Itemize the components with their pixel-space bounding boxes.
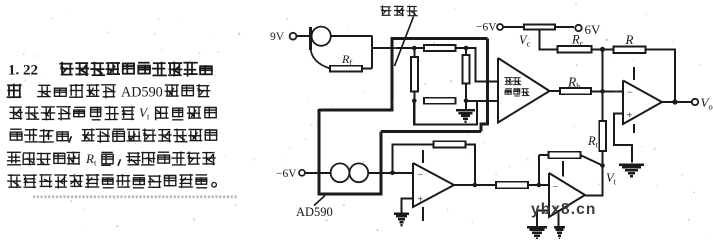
wire node Q1 output <box>371 35 373 68</box>
terminal -6V (bottom) <box>276 168 331 180</box>
op-amp U4 <box>623 67 662 133</box>
svg-text:−: − <box>418 170 424 181</box>
text line1 "1.22 传感器温度补偿原理电" <box>8 63 212 79</box>
scan artifact faint band <box>33 195 237 198</box>
wire Rc to summing <box>602 49 604 91</box>
terminal 6V <box>575 22 601 37</box>
wire bus C <box>318 109 321 194</box>
text line3 "感器经过放大后的Vt作为温度" <box>10 105 216 122</box>
label Rb <box>567 75 581 92</box>
svg-text:9V: 9V <box>270 31 285 43</box>
ground U3 pin <box>554 227 565 239</box>
wire Rt to Vt <box>602 151 604 166</box>
resistor R6 (coupling) <box>496 182 549 188</box>
svg-text:6V: 6V <box>585 22 602 37</box>
svg-text:−: − <box>553 182 559 193</box>
wire bus F <box>381 130 481 133</box>
transistor Q1 (current source) <box>311 27 331 69</box>
resistor Rb <box>560 88 603 94</box>
label Rf <box>341 52 352 68</box>
wire bridge feed <box>372 47 424 49</box>
label Rc <box>571 33 584 49</box>
wire bridge BR to U1 - <box>466 100 498 102</box>
resistor R <box>614 46 676 102</box>
wire AD590 output <box>368 172 413 174</box>
text line4 "补偿信号，通过压力传感器温度" <box>10 129 216 142</box>
wire U2 + to ground <box>402 199 414 213</box>
svg-text:AD590: AD590 <box>296 205 333 219</box>
node U2 output <box>473 183 478 188</box>
node J2 (Rc/R junction) <box>600 47 605 52</box>
svg-text:−6V: −6V <box>276 168 297 180</box>
watermark ybx8.cn <box>531 201 596 218</box>
resistor bridge R2 (left) <box>411 48 418 101</box>
op-amp U1 instrumentation amplifier 仪器放大器 <box>498 58 550 123</box>
node Vt <box>600 163 605 168</box>
terminal -6V (top) <box>476 22 524 34</box>
svg-text:Vo: Vo <box>701 95 713 112</box>
bridge node BR <box>464 99 469 104</box>
bridge node TR <box>464 46 469 51</box>
wire summing to U4 <box>603 90 624 92</box>
wire U4 output <box>661 101 692 103</box>
wire U2 output <box>454 184 496 186</box>
ground U4 <box>619 165 644 177</box>
svg-text:Rt: Rt <box>587 134 599 150</box>
svg-text:R: R <box>625 32 634 47</box>
resistor bridge R1 (top) <box>424 45 466 51</box>
wire U3 + to ground <box>537 211 549 227</box>
svg-text:Rc: Rc <box>571 33 584 49</box>
svg-text:AD590: AD590 <box>121 85 163 101</box>
ground U3 + <box>527 227 547 239</box>
wire bus G <box>481 39 488 132</box>
op-amp U2 <box>413 150 454 221</box>
wire bus D (AD590 box bottom) <box>318 193 381 196</box>
wire bridge BL loop <box>414 101 477 125</box>
resistor bridge R3 (right) <box>463 48 470 101</box>
svg-text:+: + <box>627 111 633 122</box>
svg-text:−: − <box>627 88 633 99</box>
node J1 summing <box>600 89 605 94</box>
wire bus left A <box>391 37 394 110</box>
resistor R7 (U3 feedback) <box>539 152 602 165</box>
node U4 output <box>672 99 677 104</box>
label Vc <box>519 33 531 49</box>
wire U3 output to Vt <box>585 166 603 196</box>
AD590 label arrow <box>314 196 325 206</box>
resistor Rt <box>599 121 606 151</box>
wire U3 feedback up <box>538 155 540 185</box>
svg-text:Rt: Rt <box>85 151 97 168</box>
potentiometer RP <box>524 24 574 29</box>
wire bus top H <box>392 37 488 40</box>
text line2 "路 该电路通过AD590温度传" <box>8 85 210 101</box>
label sensor 传感器 <box>381 6 417 16</box>
svg-text:+: + <box>418 195 424 206</box>
svg-text:Rf: Rf <box>341 52 352 68</box>
node U3 input <box>537 183 542 188</box>
resistor Rc <box>558 46 614 53</box>
resistor R5 (U2 feedback) <box>434 141 475 185</box>
wire Q1 collector <box>331 35 372 37</box>
text line6 "器的热零点漂移和灵敏度漂移。" <box>8 175 217 188</box>
wire bus B <box>319 109 393 112</box>
wire summing to Rt <box>602 91 604 121</box>
label Vt <box>606 171 617 187</box>
terminal 9V <box>270 31 311 43</box>
wire U4 + to ground <box>614 114 632 163</box>
label AD590 <box>296 205 333 219</box>
terminal Vo <box>692 99 698 105</box>
sensor arrow <box>395 17 414 67</box>
label R <box>625 32 634 47</box>
wire RP wiper <box>540 30 558 50</box>
text line5 "特性来求得Rt值，进而补偿传感" <box>8 151 215 168</box>
op-amp U3 <box>549 161 585 227</box>
bridge node TL <box>412 46 417 51</box>
svg-text:Vc: Vc <box>519 33 531 49</box>
svg-text:Vt: Vt <box>139 105 150 122</box>
resistor bridge R4 (bottom) <box>424 98 456 104</box>
resistor Rf <box>330 66 372 72</box>
wire U1 output <box>550 90 561 92</box>
svg-text:ybx8.cn: ybx8.cn <box>531 201 596 218</box>
wire bus E (AD590 box right) <box>380 132 383 196</box>
label Rt <box>587 134 599 150</box>
ground U2 <box>394 214 409 226</box>
ground bridge <box>456 101 475 122</box>
svg-text:Rb: Rb <box>567 75 581 92</box>
node U2 inverting input <box>390 171 395 176</box>
svg-text:Vt: Vt <box>606 171 617 187</box>
wire bridge TR to U1 + <box>466 48 498 82</box>
bridge node BL <box>412 99 417 104</box>
wire U2 feedback <box>393 145 434 173</box>
svg-text:−6V: −6V <box>476 22 497 34</box>
label Vo <box>701 95 713 112</box>
AD590 current source <box>331 163 369 182</box>
svg-text:1. 22: 1. 22 <box>8 63 38 79</box>
